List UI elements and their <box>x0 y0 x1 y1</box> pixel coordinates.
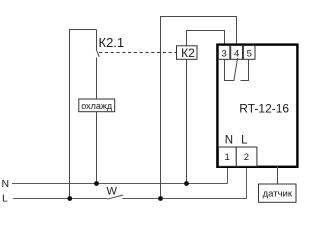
terminal 3 <box>218 46 229 60</box>
svg-text:L: L <box>2 193 8 205</box>
svg-text:3: 3 <box>222 49 227 60</box>
wire relay to sensor <box>277 166 279 184</box>
terminal 1 <box>219 147 237 166</box>
wire left branch from L up over top <box>70 30 97 199</box>
contact K2.1 blade <box>96 49 99 57</box>
terminal 5 <box>243 46 255 60</box>
wire L line right of switch W <box>123 198 247 200</box>
wire L line left of switch W <box>13 198 108 200</box>
sensor box датчик <box>259 184 297 202</box>
switch W blade <box>108 195 124 199</box>
mechanical link dashed K2.1 to K2 <box>99 52 177 54</box>
junction dot on L at x160 <box>158 196 163 201</box>
svg-text:5: 5 <box>247 49 252 60</box>
junction dot on L at x70 <box>67 196 72 201</box>
internal contact: lead from 3 <box>225 59 234 80</box>
junction dot on N at x186 <box>184 181 189 186</box>
wire охлажд to N <box>96 112 98 184</box>
wire N line <box>12 183 228 185</box>
relay RT-12-16 body <box>217 45 297 167</box>
svg-text:К2.1: К2.1 <box>99 35 125 50</box>
load box охлажд <box>79 99 115 112</box>
svg-text:К2: К2 <box>181 46 195 60</box>
internal contact: blade from 4 <box>234 58 238 81</box>
wire K2 top to terminal 3 <box>187 31 225 46</box>
wire K2 bottom to N <box>186 59 188 183</box>
relay coil K2 box <box>177 46 198 60</box>
svg-text:RT-12-16: RT-12-16 <box>239 101 289 115</box>
wire L to terminal 2 <box>246 166 248 199</box>
svg-text:2: 2 <box>244 152 249 163</box>
svg-text:N: N <box>225 134 233 146</box>
svg-text:охлажд: охлажд <box>81 101 113 111</box>
svg-text:4: 4 <box>234 49 239 60</box>
internal contact: lead from 5 <box>241 59 249 80</box>
terminal 2 <box>236 147 257 166</box>
junction dot on N at x96 <box>94 181 99 186</box>
svg-text:1: 1 <box>225 152 230 163</box>
terminal 4 <box>231 46 243 60</box>
svg-text:N: N <box>2 178 10 190</box>
svg-text:датчик: датчик <box>263 189 293 200</box>
contact K2.1 lower lead <box>96 58 98 100</box>
contact K2.1 upper lead <box>96 30 98 50</box>
svg-text:W: W <box>107 186 118 198</box>
wire L to terminal 4 over top <box>161 17 237 199</box>
svg-text:L: L <box>241 134 248 146</box>
wire N to terminal 1 <box>227 166 229 184</box>
